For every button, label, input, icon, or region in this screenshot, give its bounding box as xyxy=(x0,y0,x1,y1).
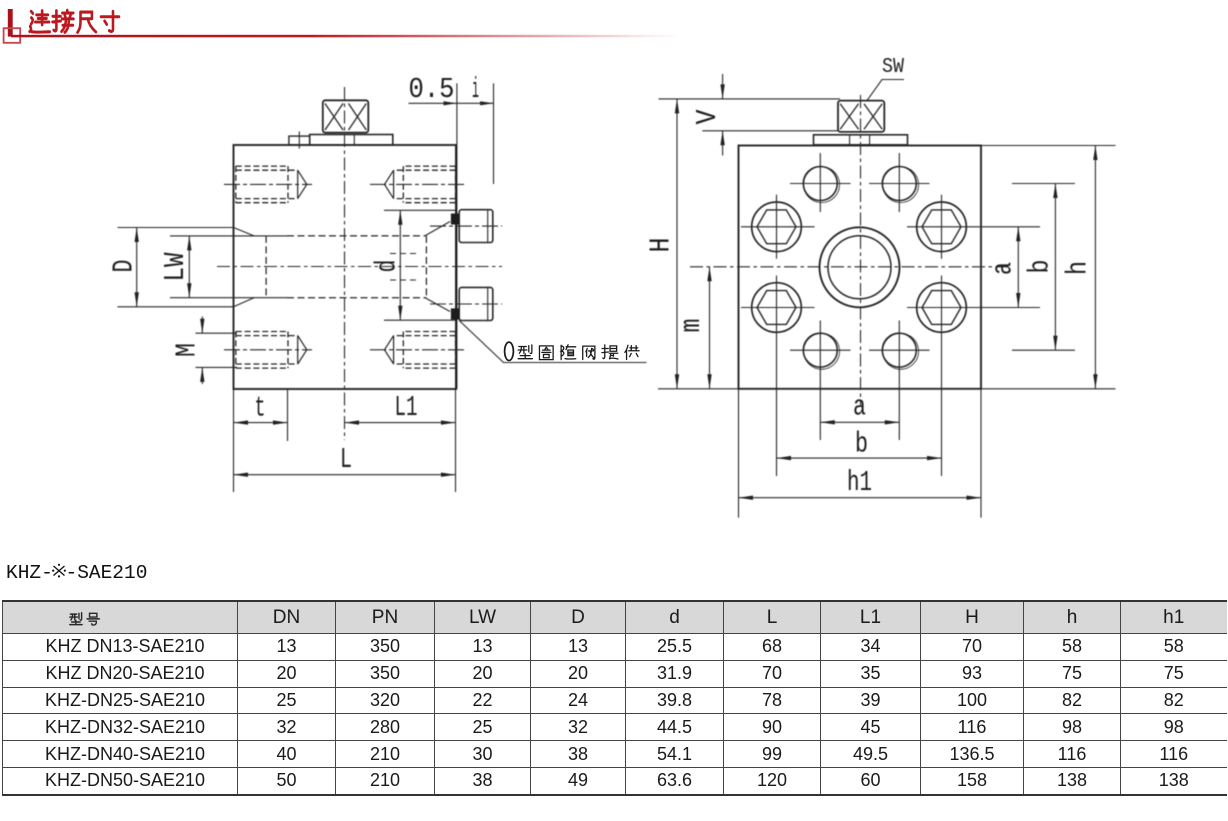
top nut xyxy=(323,100,369,132)
svg-text:L1: L1 xyxy=(395,391,418,424)
center vertical axis dash-dot xyxy=(344,87,346,440)
svg-text:t: t xyxy=(255,392,266,425)
svg-text:h: h xyxy=(1062,261,1095,275)
bolt LR dashed xyxy=(394,332,456,369)
right view group xyxy=(645,56,1116,518)
plug upper centerline xyxy=(430,225,502,227)
svg-text:d: d xyxy=(371,260,404,273)
svg-text:M: M xyxy=(171,343,204,357)
dim M xyxy=(196,333,238,367)
O-ring upper (black) xyxy=(451,214,459,225)
svg-text:SW: SW xyxy=(882,56,904,79)
dim D xyxy=(118,228,235,307)
horizontal center axis dash-dot xyxy=(217,266,502,268)
table header cell 型号 xyxy=(70,613,100,625)
reference mark glyph xyxy=(52,564,66,578)
O-ring callout text 0型圈随阀提供 xyxy=(505,342,639,360)
model code line KHZ-*-SAE210 xyxy=(6,562,147,584)
small hole bottom-left xyxy=(803,333,837,367)
svg-text:m: m xyxy=(675,319,708,333)
dim h right xyxy=(1094,146,1096,389)
small hole top-left xyxy=(803,167,837,201)
dim L1 xyxy=(345,422,456,424)
dim a bottom xyxy=(820,421,899,423)
hex socket LR xyxy=(917,283,967,333)
nut cross hatch xyxy=(840,104,882,130)
left view dimension labels xyxy=(108,73,480,476)
dim b right ext lines xyxy=(1012,184,1075,351)
svg-text:b: b xyxy=(855,428,868,461)
svg-text:a: a xyxy=(853,391,866,424)
hex socket UL xyxy=(752,202,802,252)
flange left tab xyxy=(289,136,310,145)
svg-text:0.5: 0.5 xyxy=(409,73,455,106)
bolt LL centerline xyxy=(224,349,312,351)
center horizontal axis xyxy=(690,266,1012,268)
dim a right xyxy=(1017,227,1019,308)
right view dimension labels xyxy=(645,56,1095,499)
hex socket UR xyxy=(917,202,967,252)
svg-text:LW: LW xyxy=(159,252,192,281)
dim t xyxy=(234,422,288,424)
bolt UR dashed xyxy=(394,166,456,203)
bolt LR centerline xyxy=(370,349,466,351)
small hole top-right xyxy=(882,167,916,201)
valve body outline xyxy=(234,145,457,389)
svg-text:KHZ-: KHZ- xyxy=(6,562,53,584)
dim 0.5/i extension lines xyxy=(409,83,494,184)
svg-text:i: i xyxy=(472,73,479,106)
body square outline xyxy=(739,146,982,389)
hex socket LL xyxy=(752,283,802,333)
svg-text:V: V xyxy=(691,109,724,125)
flange inner dividers xyxy=(850,135,870,145)
dim L xyxy=(234,474,456,476)
svg-text:h1: h1 xyxy=(847,466,872,499)
section header icon bar xyxy=(4,9,679,43)
plug lower xyxy=(459,287,493,320)
dim LW xyxy=(170,236,287,298)
right port dashes xyxy=(390,254,420,281)
V extension lines xyxy=(659,99,841,131)
left face taper xyxy=(234,228,255,307)
plug upper xyxy=(459,210,493,243)
bottom edge extensions xyxy=(658,388,1116,390)
bolt UL dashed xyxy=(236,166,298,203)
bolt UR centerline xyxy=(370,183,466,185)
right face thick line xyxy=(455,145,457,389)
O-ring lower (black) xyxy=(451,308,459,319)
svg-text:b: b xyxy=(1024,260,1057,274)
right face taper xyxy=(426,222,451,312)
top nut xyxy=(838,101,884,132)
dim h1 xyxy=(739,497,982,499)
svg-text:-SAE210: -SAE210 xyxy=(66,562,148,584)
bolt LL dashed xyxy=(236,332,298,369)
svg-text:a: a xyxy=(987,262,1020,275)
bore hidden lines xyxy=(287,236,426,298)
svg-text:L: L xyxy=(340,443,352,476)
mounting flange plate xyxy=(310,135,393,145)
mounting flange xyxy=(814,135,908,145)
dim H xyxy=(676,99,678,389)
left view group xyxy=(108,73,647,492)
flange inner divider xyxy=(353,135,355,145)
nut cross hatch xyxy=(325,104,366,131)
O-ring leader line xyxy=(459,321,646,363)
svg-text:H: H xyxy=(645,238,678,253)
svg-text:D: D xyxy=(108,260,141,273)
bolt UL centerline xyxy=(224,183,312,185)
dim d xyxy=(384,210,457,320)
flange bolt tick xyxy=(298,131,300,148)
dim V xyxy=(722,74,724,99)
dim m xyxy=(709,267,711,389)
plug lower centerline xyxy=(430,303,502,305)
dim 0.5/i arrows xyxy=(444,101,494,105)
bore chamber verticals dashed xyxy=(266,236,426,298)
center bore xyxy=(820,227,900,307)
center vertical axis xyxy=(860,95,862,405)
dim b right xyxy=(1054,184,1056,351)
dim b bottom xyxy=(777,457,942,459)
small hole bottom-right xyxy=(882,333,916,367)
section header title 连接尺寸 xyxy=(30,10,119,32)
body bottom extension lines xyxy=(234,389,456,492)
SW leader xyxy=(867,80,904,101)
top edge extension right xyxy=(981,145,1116,147)
body edge extensions below xyxy=(739,389,982,518)
